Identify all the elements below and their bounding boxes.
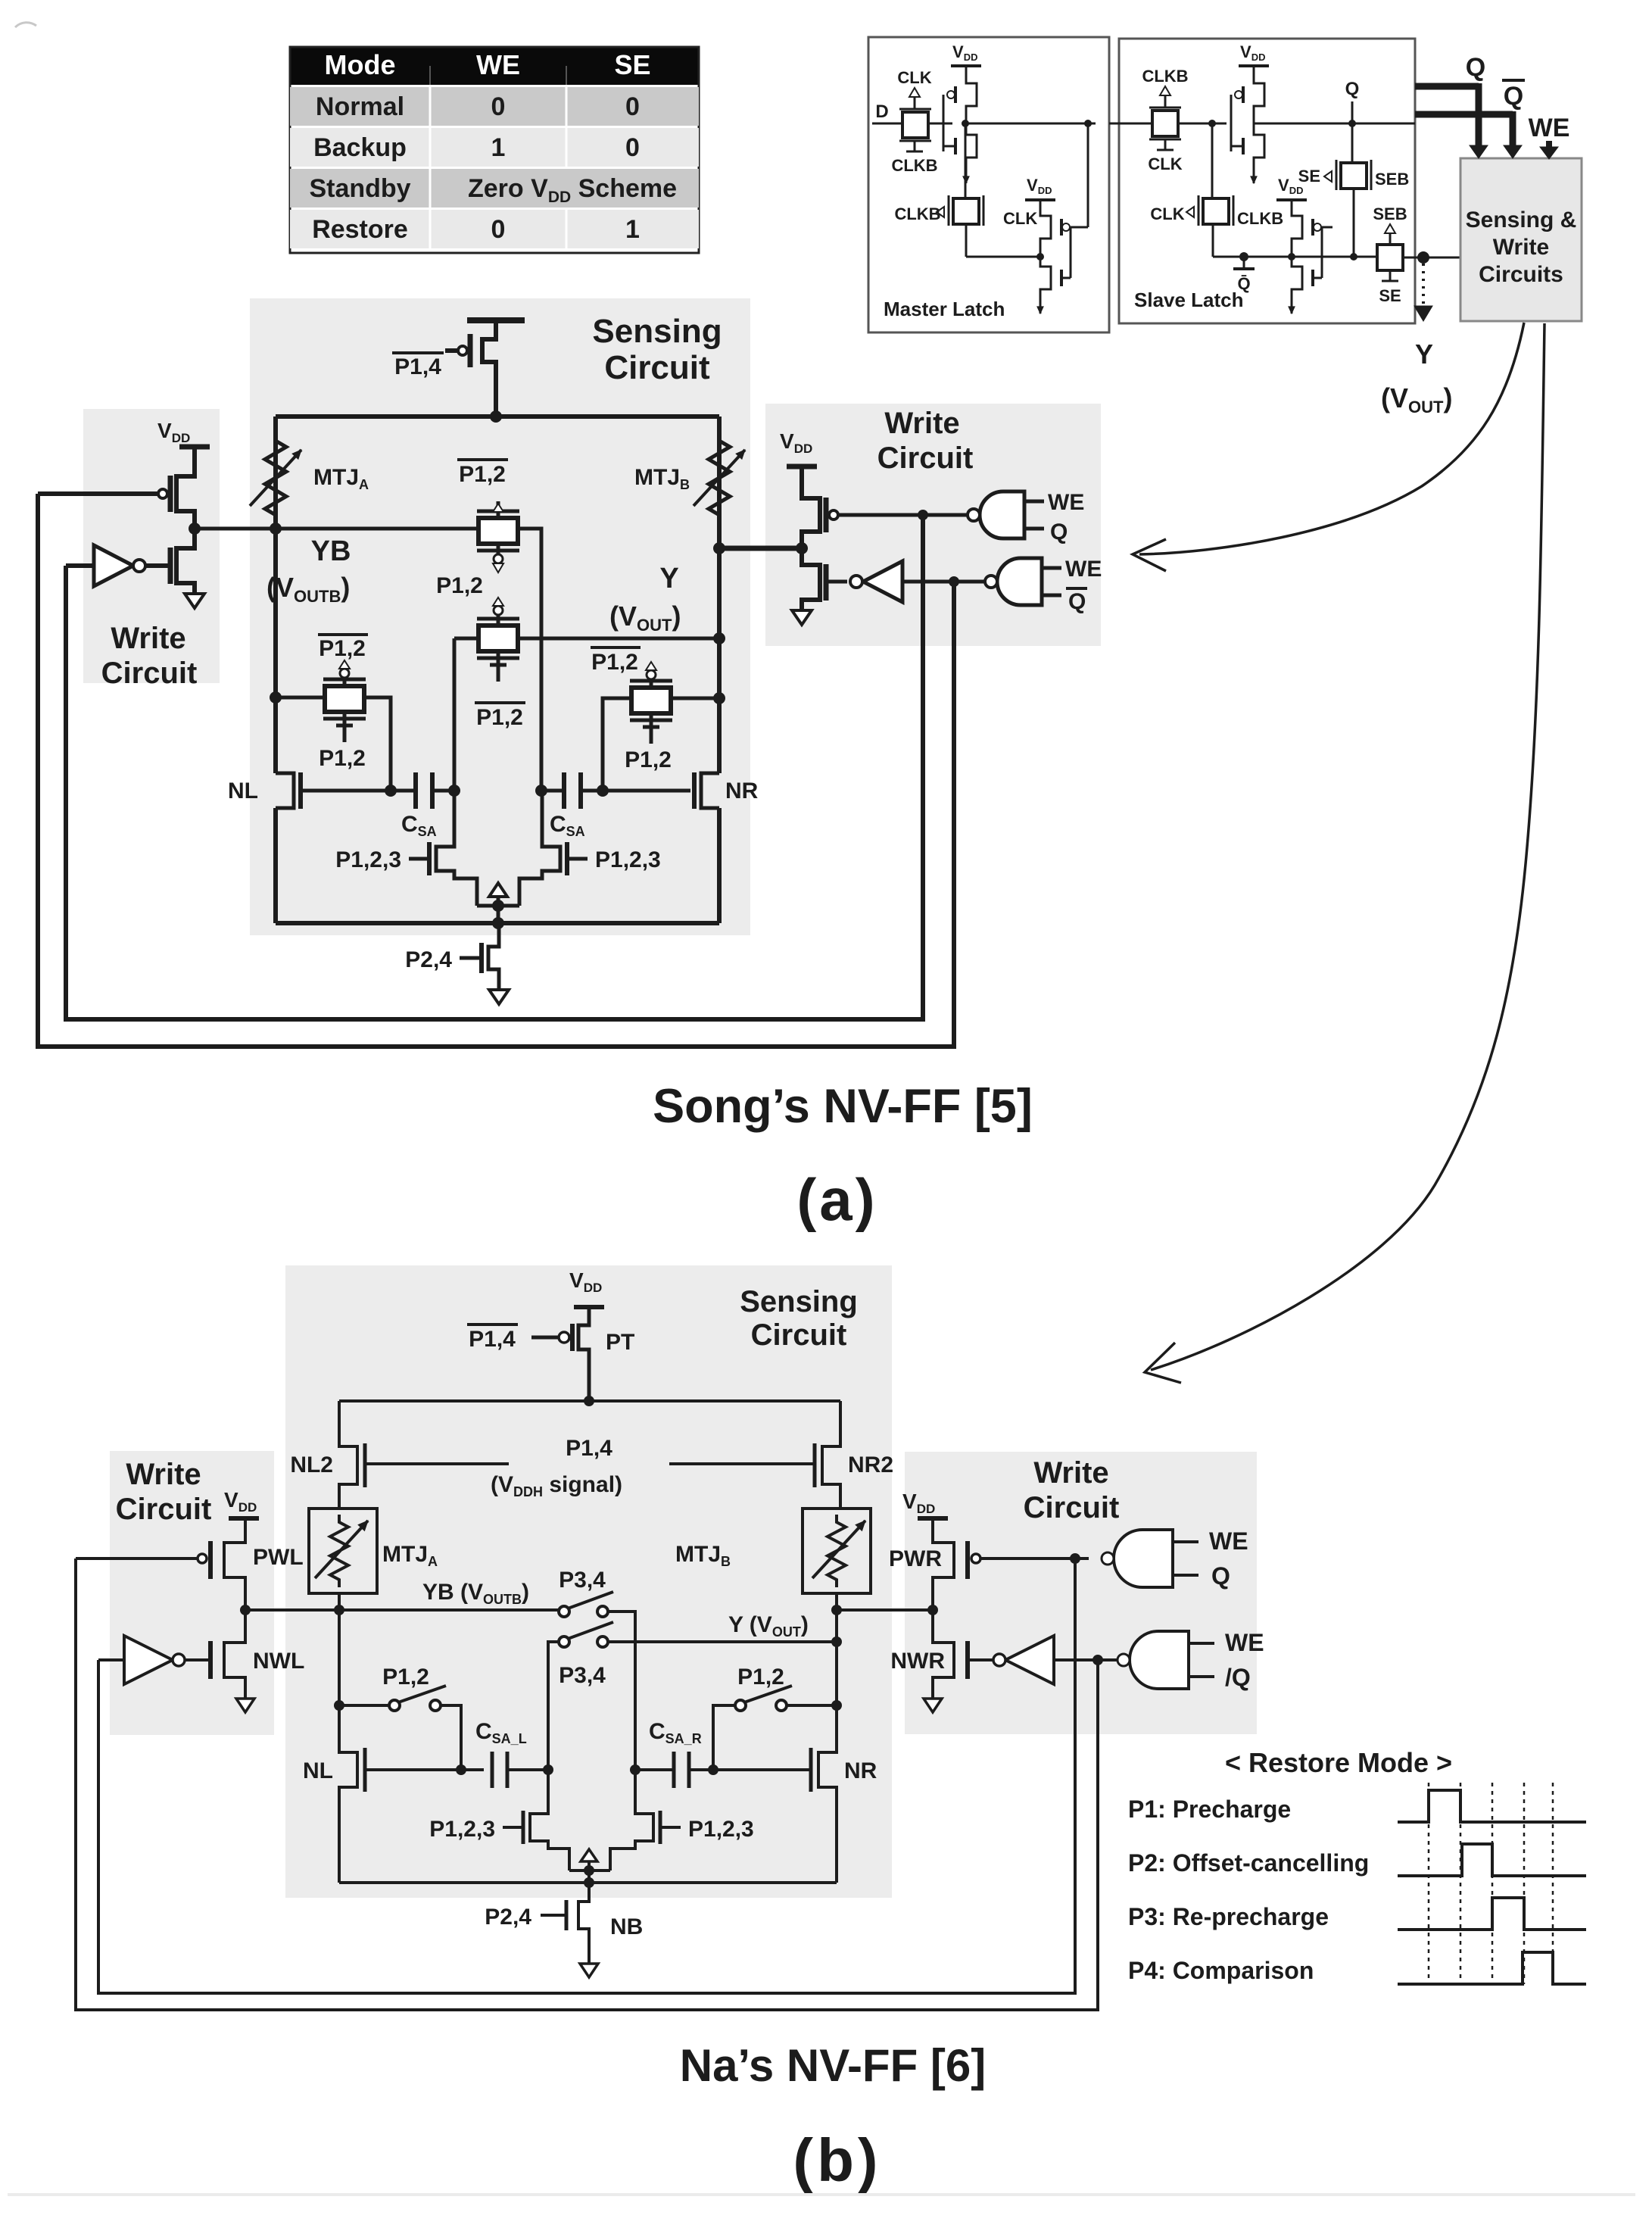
wire Y down to CSA left xyxy=(453,638,457,838)
curved arrow to circuit (b) xyxy=(1145,323,1544,1383)
svg-text:Q: Q xyxy=(1050,519,1068,544)
transmission gate TG-SE (SE/SEB) xyxy=(1298,123,1410,257)
wire YB (b) xyxy=(245,1608,559,1612)
svg-text:CLKB: CLKB xyxy=(1142,67,1188,86)
nand gate WE-Q (a) xyxy=(968,490,1084,544)
svg-text:P1,2: P1,2 xyxy=(319,636,366,661)
MTJ A (b) xyxy=(309,1509,377,1593)
svg-text:/Q: /Q xyxy=(1225,1664,1251,1691)
wire TG-S to inverter 3 xyxy=(1178,123,1227,125)
feedback wire inner (b) xyxy=(98,1558,1075,1993)
svg-text:NR2: NR2 xyxy=(848,1452,893,1477)
top rail (b) xyxy=(339,1399,840,1402)
svg-text:P1,4: P1,4 xyxy=(469,1327,516,1352)
svg-text:Q̄: Q̄ xyxy=(1237,274,1250,293)
ground (a footer) xyxy=(489,990,509,1004)
ground NWR (b) xyxy=(924,1699,942,1712)
svg-text:SEB: SEB xyxy=(1373,204,1407,223)
svg-text:WE: WE xyxy=(1529,114,1570,142)
svg-text:Q: Q xyxy=(1466,53,1485,82)
svg-text:P3,4: P3,4 xyxy=(559,1568,606,1593)
svg-text:CLKB: CLKB xyxy=(1237,209,1283,228)
svg-text:NWR: NWR xyxy=(890,1649,945,1674)
wire TG-SEB output to Y node xyxy=(1403,257,1460,259)
svg-text:CLKB: CLKB xyxy=(894,204,940,223)
inverter write-left (b) xyxy=(98,1636,185,1684)
wire Q to latch edge xyxy=(1352,123,1415,125)
node write-right drain to Y rail xyxy=(719,546,802,551)
wire MTJB to PWR xyxy=(837,1608,933,1612)
label P1,4bar (b) xyxy=(467,1324,518,1352)
svg-text:CLK: CLK xyxy=(1003,209,1037,228)
svg-text:P3,4: P3,4 xyxy=(559,1663,606,1688)
svg-text:WE: WE xyxy=(1209,1527,1248,1555)
svg-text:CLKB: CLKB xyxy=(891,156,937,175)
wire Q bold xyxy=(1415,53,1488,158)
svg-text:NB: NB xyxy=(610,1914,643,1939)
right branch NR2 (b) xyxy=(669,1401,840,1509)
wire Qbar bold xyxy=(1415,80,1525,158)
pmos P1,4bar precharge (a) xyxy=(445,320,525,417)
wire TGL right loop xyxy=(364,697,391,791)
svg-text:CLK: CLK xyxy=(1148,154,1182,173)
timing dashed guides xyxy=(1429,1783,1553,1984)
svg-text:Standby: Standby xyxy=(309,174,410,203)
feedback wire inner-left (a) xyxy=(66,515,923,1019)
switch P1,2 left (b) xyxy=(334,1665,461,1770)
wire feedback to TG-FB xyxy=(966,256,1040,258)
svg-text:0: 0 xyxy=(491,92,506,121)
label YB VOUTB (b) xyxy=(422,1580,529,1607)
nmos write-left (a) xyxy=(145,529,195,594)
svg-text:P1,2: P1,2 xyxy=(319,746,366,771)
svg-text:PWL: PWL xyxy=(253,1545,304,1570)
svg-text:Write: Write xyxy=(884,407,959,440)
svg-text:Q: Q xyxy=(1504,82,1523,111)
svg-text:NL: NL xyxy=(228,778,258,803)
transmission gate TGL (a) xyxy=(323,660,366,742)
top rail (a) xyxy=(276,414,719,419)
feedback wire outer (b) xyxy=(76,1558,1098,2010)
svg-text:Q: Q xyxy=(1211,1562,1230,1590)
capacitor CSA left (a) xyxy=(391,772,454,809)
junction NAND1 node (b) xyxy=(1070,1553,1080,1564)
inverter U4 (CMOS pair, VDD) xyxy=(1276,176,1333,314)
transmission gate TG-FB2 (CLK/CLKB) xyxy=(1150,123,1283,257)
wire inverter3 output to Q node xyxy=(1254,123,1352,125)
label VOUT (a) xyxy=(609,601,681,635)
write circuit box (a) left xyxy=(83,409,220,683)
svg-text:Zero VDD Scheme: Zero VDD Scheme xyxy=(468,174,677,206)
ground write-right (a) xyxy=(792,610,812,625)
svg-text:Circuit: Circuit xyxy=(877,441,974,475)
ground NB (b) xyxy=(580,1952,598,1977)
svg-text:P1,2: P1,2 xyxy=(459,462,506,487)
inverter write-right (b) xyxy=(993,1636,1119,1684)
svg-text:SEB: SEB xyxy=(1375,170,1409,189)
MTJ A (a) xyxy=(250,433,301,523)
write circuit box (a) right xyxy=(765,404,1101,646)
svg-text:P2: Offset-cancelling: P2: Offset-cancelling xyxy=(1128,1849,1369,1877)
svg-text:Write: Write xyxy=(1033,1456,1108,1490)
tail common node arrow (a) xyxy=(477,883,519,929)
ground NWL (b) xyxy=(236,1699,254,1712)
svg-text:1: 1 xyxy=(625,215,640,244)
svg-text:P1,2,3: P1,2,3 xyxy=(335,847,401,872)
svg-text:NL2: NL2 xyxy=(290,1452,333,1477)
svg-text:Circuit: Circuit xyxy=(101,657,198,690)
svg-text:WE: WE xyxy=(1065,557,1102,582)
nmos write-right (a) xyxy=(802,548,847,610)
wire switch1 to cross down xyxy=(608,1612,635,1770)
wire YB (a) xyxy=(195,527,480,531)
inverter write-left (a) xyxy=(66,545,145,586)
svg-text:NR: NR xyxy=(725,778,759,803)
svg-text:Write: Write xyxy=(111,622,185,655)
label P1,2bar below TG2 xyxy=(475,703,525,730)
svg-text:CLK: CLK xyxy=(1150,204,1184,223)
sensing circuit box (b) xyxy=(285,1265,892,1898)
svg-text:Q: Q xyxy=(1068,589,1086,614)
svg-text:Y: Y xyxy=(1415,339,1433,370)
svg-text:Write: Write xyxy=(1493,235,1549,260)
signal WE input arrow xyxy=(1529,114,1570,159)
MTJ B (b) xyxy=(803,1509,871,1593)
nmos NWL (b) xyxy=(185,1610,245,1699)
pmos PT (b) xyxy=(531,1307,604,1401)
svg-text:Restore: Restore xyxy=(312,215,408,244)
svg-text:P1,2: P1,2 xyxy=(737,1665,784,1690)
svg-text:Master Latch: Master Latch xyxy=(884,298,1005,320)
svg-text:P1,2,3: P1,2,3 xyxy=(688,1817,754,1842)
svg-text:Normal: Normal xyxy=(316,92,404,121)
svg-text:P4: Comparison: P4: Comparison xyxy=(1128,1957,1314,1984)
svg-text:NL: NL xyxy=(303,1758,333,1783)
ground write-left (a) xyxy=(185,594,204,608)
svg-text:P2,4: P2,4 xyxy=(405,947,452,972)
wire CSA-R to NR gate xyxy=(603,789,690,793)
svg-text:< Restore Mode >: < Restore Mode > xyxy=(1225,1747,1452,1778)
svg-text:0: 0 xyxy=(625,92,640,121)
svg-text:P1,2: P1,2 xyxy=(625,747,672,772)
junction NAND2 node (b) xyxy=(1093,1655,1103,1665)
svg-text:Na’s NV-FF [6]: Na’s NV-FF [6] xyxy=(680,2040,987,2091)
nmos tail right P123 (a) xyxy=(519,791,588,906)
label VOUTB xyxy=(267,572,350,606)
svg-text:NR: NR xyxy=(844,1758,877,1783)
wire inverter4 to SE-TG column xyxy=(1244,256,1292,258)
svg-text:Slave Latch: Slave Latch xyxy=(1134,289,1244,311)
svg-text:Circuit: Circuit xyxy=(751,1318,847,1352)
svg-text:SE: SE xyxy=(614,49,650,80)
master latch box xyxy=(868,37,1109,332)
switch P3,4 lower (b) xyxy=(559,1622,613,1688)
timing waveform P4 xyxy=(1398,1952,1586,1984)
svg-text:P2,4: P2,4 xyxy=(485,1905,531,1930)
svg-text:Sensing: Sensing xyxy=(740,1285,858,1318)
svg-text:PWR: PWR xyxy=(889,1546,942,1571)
transmission gate TG1 (a) xyxy=(477,501,519,573)
inverter U3 (CMOS pair, VDD) xyxy=(1231,42,1269,183)
feedback wire outer-left (a) xyxy=(38,494,954,1047)
pmos write-left (a) xyxy=(38,419,210,529)
nmos NR (a) xyxy=(694,772,719,809)
nmos NL (b) xyxy=(339,1745,484,1883)
timing waveform P3 xyxy=(1398,1898,1586,1930)
svg-text:P1,4: P1,4 xyxy=(394,354,441,379)
label P1,2bar above TG3 xyxy=(591,647,641,675)
svg-text:YB: YB xyxy=(311,535,351,567)
svg-text:NWL: NWL xyxy=(253,1649,304,1674)
transmission gate TG-SEB (SEB/SE) xyxy=(1333,204,1407,305)
label P1,4bar (a) xyxy=(392,353,444,379)
transmission gate TG2 (a) xyxy=(477,598,519,682)
svg-text:P3: Re-precharge: P3: Re-precharge xyxy=(1128,1903,1329,1930)
transmission gate TG3 (a) xyxy=(630,662,672,744)
svg-text:CLK: CLK xyxy=(897,68,931,87)
wire Y (b) xyxy=(608,1640,837,1643)
nand gate WE-Qbar (a) xyxy=(985,557,1102,614)
wire TG1 to cross column xyxy=(518,529,541,791)
switch P1,2 right (b) xyxy=(708,1665,842,1775)
capacitor CSA_L (b) xyxy=(492,1752,553,1788)
wire Y (a) xyxy=(454,637,719,641)
nmos P2,4 footer (a) xyxy=(460,923,499,990)
junction NAND1 line (a) xyxy=(918,510,928,520)
transmission gate TG-FB (CLKB/CLK) xyxy=(894,123,1037,257)
switch P3,4 upper (b) xyxy=(559,1568,613,1617)
wire TG3 right xyxy=(671,697,719,700)
node write-left drain xyxy=(189,523,201,535)
sensing circuit box (a) xyxy=(250,298,750,935)
slave latch box xyxy=(1119,39,1415,323)
svg-text:Circuit: Circuit xyxy=(116,1493,212,1526)
label CSA_L xyxy=(475,1719,527,1746)
svg-text:SE: SE xyxy=(1298,167,1320,186)
nmos NWR (b) xyxy=(933,1610,993,1699)
svg-text:WE: WE xyxy=(476,49,520,80)
curved arrow to write circuit (a) xyxy=(1133,323,1524,571)
svg-text:Song’s NV-FF [5]: Song’s NV-FF [5] xyxy=(653,1080,1033,1133)
label P1,2bar above TGL xyxy=(318,635,368,661)
nmos tail right P123 (b) xyxy=(610,1770,681,1871)
ground Qbar symbol xyxy=(1213,252,1255,293)
svg-text:0: 0 xyxy=(491,215,506,244)
pmos write-right (a) xyxy=(780,429,968,548)
svg-text:Backup: Backup xyxy=(313,133,407,162)
svg-text:P1: Precharge: P1: Precharge xyxy=(1128,1796,1291,1823)
nmos NL (a) xyxy=(276,772,391,809)
wire switch2 to left cross down xyxy=(548,1642,559,1770)
svg-text:D: D xyxy=(875,101,888,122)
node Y output dotted xyxy=(1414,264,1433,370)
inverter write-right (a) xyxy=(850,561,985,602)
svg-text:Circuit: Circuit xyxy=(1024,1491,1120,1524)
nand gate WE-/Q (b) xyxy=(1117,1629,1264,1691)
nmos tail left P123 (b) xyxy=(503,1770,569,1871)
bottom rail (a) xyxy=(276,921,719,925)
svg-text:0: 0 xyxy=(625,133,640,162)
svg-text:PT: PT xyxy=(606,1330,634,1355)
mode table xyxy=(290,47,699,253)
svg-text:P1,4: P1,4 xyxy=(566,1436,612,1461)
svg-text:Q: Q xyxy=(1345,79,1360,99)
label VDDH signal xyxy=(491,1472,622,1499)
inverter U1 (CMOS pair, VDD) xyxy=(943,42,981,183)
nand gate WE-Q (b) xyxy=(1102,1527,1248,1590)
timing waveform P1 xyxy=(1398,1790,1586,1822)
capacitor CSA_R (b) xyxy=(630,1752,713,1788)
svg-text:Circuit: Circuit xyxy=(604,349,710,386)
wire TG3 left loop xyxy=(603,698,631,791)
svg-text:Sensing: Sensing xyxy=(592,313,722,350)
write circuit box (b) left xyxy=(110,1451,274,1735)
timing waveform P2 xyxy=(1398,1844,1586,1876)
svg-text:(a): (a) xyxy=(796,1166,877,1233)
svg-text:Sensing &: Sensing & xyxy=(1466,207,1577,232)
nmos tail left P123 (a) xyxy=(409,838,477,906)
sensing and write circuits block xyxy=(1460,158,1582,321)
right rail (a) xyxy=(717,417,722,773)
left branch NL2 (b) xyxy=(339,1401,509,1509)
svg-text:WE: WE xyxy=(1048,490,1084,515)
svg-text:P1,2: P1,2 xyxy=(436,573,483,598)
left rail (b) xyxy=(338,1593,341,1745)
svg-text:SE: SE xyxy=(1379,286,1401,305)
svg-text:(b): (b) xyxy=(793,2126,881,2194)
svg-text:(VDDH signal): (VDDH signal) xyxy=(491,1472,622,1499)
nmos NR (b) xyxy=(713,1745,837,1883)
right rail (b) xyxy=(835,1593,838,1745)
wire TGL left xyxy=(276,696,325,700)
page footer rule xyxy=(8,2193,1635,2196)
svg-text:P1,2: P1,2 xyxy=(476,705,523,730)
svg-text:Y: Y xyxy=(659,563,678,594)
junction NAND2 line (a) xyxy=(949,576,959,587)
svg-text:Circuits: Circuits xyxy=(1479,262,1563,287)
capacitor CSA right (a) xyxy=(541,772,603,809)
svg-text:P1,2,3: P1,2,3 xyxy=(429,1817,495,1842)
wire D-node to inverter 1 xyxy=(928,123,952,125)
wire master to slave xyxy=(1109,123,1152,125)
svg-text:P1,2: P1,2 xyxy=(382,1665,429,1690)
write circuit box (b) right xyxy=(905,1452,1257,1734)
wire CSA-R vertical xyxy=(541,791,544,838)
bottom rail (b) xyxy=(339,1881,837,1884)
svg-text:Write: Write xyxy=(126,1458,201,1491)
transmission gate TG-D (CLK/CLKB) xyxy=(872,68,938,175)
label Y VOUT (b) xyxy=(728,1612,809,1640)
left rail (a) xyxy=(273,417,278,773)
svg-text:1: 1 xyxy=(491,133,506,162)
wire CSA-L to tail xyxy=(453,791,457,838)
nmos NB footer (b) xyxy=(541,1883,589,1952)
pmos PWR (b) xyxy=(902,1490,1089,1610)
transmission gate TG-S (CLKB/CLK) xyxy=(1142,67,1188,173)
pmos PWL (b) xyxy=(76,1488,259,1610)
svg-text:Mode: Mode xyxy=(325,49,396,80)
corner artifact xyxy=(15,23,36,27)
MTJ B (a) xyxy=(694,433,745,523)
svg-text:WE: WE xyxy=(1225,1629,1264,1656)
svg-text:P1,2,3: P1,2,3 xyxy=(595,847,661,872)
tail common arrow (b) xyxy=(569,1849,610,1888)
svg-text:P1,2: P1,2 xyxy=(591,650,638,675)
node PWL drain (b) xyxy=(240,1605,251,1615)
label P1,2bar above TG1 xyxy=(457,460,508,487)
wire inverter1 output to slave xyxy=(966,123,1096,125)
inverter U2 (CMOS pair, VDD) xyxy=(1025,123,1088,314)
